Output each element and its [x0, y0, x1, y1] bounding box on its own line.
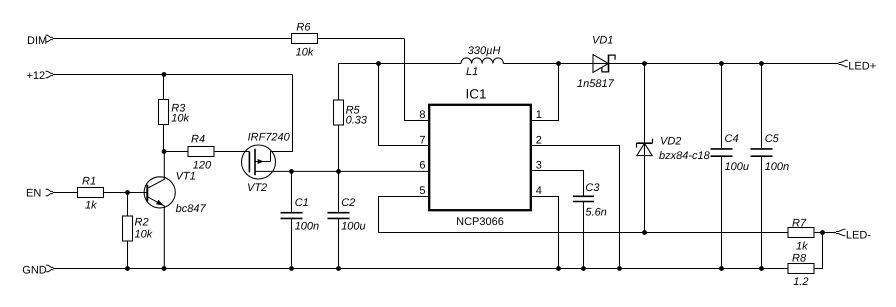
svg-text:L1: L1 [466, 66, 478, 78]
capacitor C4 [711, 64, 733, 269]
wire R1 to VT1 base [104, 192, 147, 194]
port LED+ [839, 60, 848, 67]
wire top rail VD1 to LED+ [609, 63, 839, 65]
transistor VT2 [242, 145, 276, 179]
svg-text:VD1: VD1 [592, 34, 613, 46]
svg-text:0.33: 0.33 [346, 115, 368, 127]
svg-text:C4: C4 [725, 133, 739, 145]
wire R8 to LED- riser [814, 233, 823, 269]
svg-text:VT2: VT2 [247, 182, 267, 194]
port GND [46, 265, 53, 272]
junction top rail / pin7 drop [376, 61, 381, 66]
svg-text:100u: 100u [341, 221, 365, 233]
wire pin4 stub and drop [530, 197, 559, 269]
junction top rail / C4 [719, 61, 724, 66]
wire +12 rail [53, 74, 293, 76]
op-amp IC1 box [429, 105, 531, 210]
capacitor C3 [573, 196, 594, 268]
wire VT2 drain rail to pin6 [255, 170, 430, 172]
svg-text:VD2: VD2 [660, 135, 681, 147]
junction sense rail / VD2 [642, 230, 647, 235]
capacitor C2 [328, 171, 350, 268]
wire pin1 riser [530, 64, 559, 121]
wire corner down to pin8 [405, 39, 431, 121]
svg-text:10k: 10k [135, 229, 153, 241]
svg-text:LED-: LED- [846, 230, 871, 242]
svg-text:3: 3 [536, 160, 542, 172]
wire top rail R5 to L1 [339, 63, 462, 65]
wire EN to R1 [53, 192, 78, 194]
diode VD1 [593, 55, 615, 73]
svg-text:GND: GND [22, 265, 47, 277]
resistor R6 [292, 34, 318, 44]
svg-text:100n: 100n [765, 161, 789, 173]
wire GND rail [53, 268, 788, 270]
wire pin7 drop [379, 64, 431, 146]
junction GND/R2 [125, 266, 130, 271]
svg-text:1k: 1k [796, 240, 808, 252]
capacitor C1 [281, 171, 303, 268]
transistor VT1 [144, 152, 175, 269]
svg-text:5: 5 [419, 185, 425, 197]
junction GND/C5 [759, 266, 764, 271]
svg-text:6: 6 [419, 160, 425, 172]
resistor R8 [788, 264, 814, 274]
wire pin5 stub and drop [379, 197, 431, 233]
svg-text:C2: C2 [341, 197, 355, 209]
svg-text:bc847: bc847 [176, 203, 207, 215]
svg-text:10k: 10k [296, 47, 314, 59]
svg-text:10k: 10k [171, 113, 189, 125]
junction R3/R4/VT1 collector [162, 149, 167, 154]
wire +12 drop to VT2 source [271, 75, 293, 162]
svg-text:C3: C3 [585, 182, 600, 194]
resistor R4 [188, 147, 214, 157]
svg-text:DIM: DIM [27, 35, 47, 47]
junction GND/C1 [289, 266, 294, 271]
wire R3 junction to R4 [164, 151, 188, 153]
junction drain/C1 [289, 169, 294, 174]
svg-text:R2: R2 [135, 217, 149, 229]
resistor R1 [78, 188, 104, 198]
svg-text:100u: 100u [725, 161, 749, 173]
svg-text:EN: EN [26, 187, 41, 199]
svg-text:8: 8 [419, 109, 425, 121]
junction top rail / VD2 [642, 61, 647, 66]
junction GND/C3 [581, 266, 586, 271]
junction +12/R3 [162, 72, 167, 77]
junction GND/pin4 [556, 266, 561, 271]
svg-text:LED+: LED+ [848, 60, 876, 72]
junction GND/C2 [336, 266, 341, 271]
svg-text:4: 4 [536, 185, 542, 197]
svg-text:R7: R7 [792, 217, 807, 229]
svg-text:R1: R1 [82, 176, 96, 188]
wire sense rail (pin5 net) to R7 [379, 232, 789, 234]
svg-text:1: 1 [536, 109, 542, 121]
junction R1/R2/base [125, 190, 130, 195]
resistor R7 [788, 228, 814, 238]
junction drain/R5/C2 [336, 169, 341, 174]
junction GND/VT1 emitter [162, 266, 167, 271]
junction top rail / pin1 riser [556, 61, 561, 66]
wire pin3 stub and drop to C3 [530, 171, 584, 197]
svg-text:R4: R4 [191, 134, 205, 146]
capacitor C5 [751, 64, 773, 269]
svg-text:R6: R6 [296, 22, 311, 34]
svg-text:C1: C1 [295, 197, 309, 209]
wire R4 to VT2 gate [214, 151, 249, 153]
junction top rail / C5 [759, 61, 764, 66]
wire R7 to LED- port [814, 232, 836, 234]
svg-text:bzx84-c18: bzx84-c18 [659, 150, 711, 162]
svg-text:+12: +12 [27, 70, 46, 82]
svg-text:5.6n: 5.6n [585, 206, 606, 218]
svg-text:NCP3066: NCP3066 [456, 216, 504, 228]
port DIM [46, 35, 53, 42]
wire DIM rail left of R6 [53, 38, 292, 40]
port LED- [836, 229, 845, 236]
port EN [46, 189, 53, 196]
svg-text:R8: R8 [792, 252, 807, 264]
inductor L1 [461, 58, 503, 64]
diode VD2 zener [637, 64, 653, 233]
port +12 [46, 71, 53, 78]
wire pin2 stub and drop [530, 146, 620, 269]
svg-text:1.2: 1.2 [793, 276, 808, 288]
junction GND/pin2 [617, 266, 622, 271]
svg-text:7: 7 [419, 134, 425, 146]
resistor R5 [334, 64, 344, 172]
wire top rail L1 to VD1 [503, 63, 593, 65]
wire R6 to corner [318, 38, 405, 40]
resistor R3 [159, 75, 169, 152]
svg-text:330µH: 330µH [468, 45, 501, 57]
svg-text:IC1: IC1 [465, 87, 486, 102]
svg-text:1n5817: 1n5817 [577, 78, 615, 90]
resistor R2 [123, 193, 133, 269]
svg-text:1k: 1k [85, 200, 97, 212]
junction R7/R8 riser [820, 230, 825, 235]
svg-text:100n: 100n [295, 221, 319, 233]
junction GND/C4 [719, 266, 724, 271]
svg-text:2: 2 [536, 134, 542, 146]
svg-text:IRF7240: IRF7240 [248, 131, 291, 143]
svg-text:C5: C5 [765, 133, 780, 145]
svg-text:VT1: VT1 [176, 170, 196, 182]
